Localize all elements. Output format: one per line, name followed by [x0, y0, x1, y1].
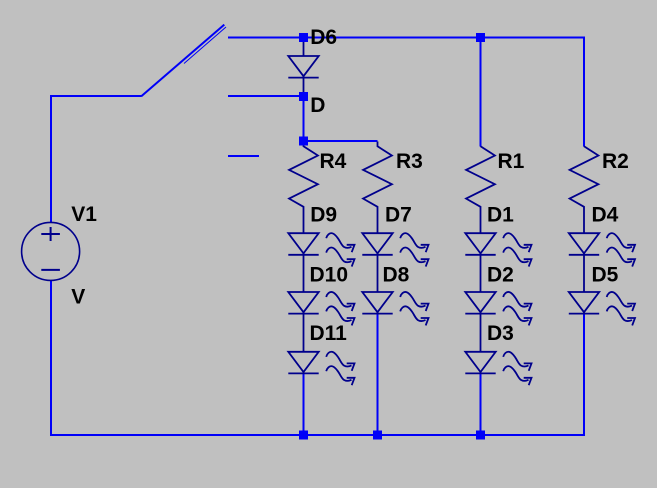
label R4 [320, 150, 347, 173]
diode D6 [288, 42, 318, 93]
switch SW1 throw 3 contact [228, 155, 259, 157]
LED D1 [465, 233, 531, 266]
resistor R1 [466, 146, 495, 233]
label D node [310, 94, 325, 117]
node R4 top [299, 137, 308, 146]
svg-text:R1: R1 [498, 150, 525, 173]
svg-text:V: V [71, 286, 85, 309]
svg-text:D7: D7 [385, 204, 412, 227]
switch SW1 arm edge [184, 27, 226, 64]
wire D7-D8 stem [377, 255, 379, 292]
label D7 [385, 204, 412, 227]
LED D9 [288, 233, 354, 266]
label R1 [498, 150, 525, 173]
wire node to R3 [304, 140, 378, 142]
label D6 [310, 26, 337, 49]
label D9 [310, 204, 337, 227]
svg-text:D5: D5 [592, 264, 619, 287]
svg-text:D2: D2 [487, 264, 514, 287]
svg-text:D11: D11 [310, 322, 348, 345]
wire D node to R4 node [303, 100, 305, 137]
svg-text:D10: D10 [310, 264, 349, 287]
svg-text:V1: V1 [71, 203, 97, 226]
svg-text:D4: D4 [592, 204, 619, 227]
svg-text:D8: D8 [383, 264, 410, 287]
node R1 top [476, 33, 485, 42]
LED D8 [362, 292, 428, 325]
wire R2 column bottom [583, 314, 585, 435]
wire D9-D10 stem [303, 255, 305, 292]
label R2 [602, 150, 629, 173]
node D [299, 92, 308, 101]
wire D11 to bottom rail [303, 373, 305, 435]
label R3 [396, 150, 423, 173]
node bottom C2 [373, 431, 382, 440]
label D4 [592, 204, 619, 227]
voltage source V1 [22, 222, 80, 280]
wire D1-D2 stem [480, 255, 482, 292]
svg-text:D6: D6 [310, 26, 337, 49]
svg-text:D1: D1 [487, 204, 514, 227]
svg-text:D: D [310, 94, 325, 117]
svg-text:D9: D9 [310, 204, 337, 227]
wire switch pole and left rail upper [51, 96, 142, 223]
label D8 [383, 264, 410, 287]
wire D2-D3 stem [480, 314, 482, 352]
LED D11 [288, 352, 354, 385]
label D10 [310, 264, 349, 287]
svg-text:R2: R2 [602, 150, 629, 173]
switch SW1 arm [141, 25, 224, 97]
svg-text:R4: R4 [320, 150, 347, 173]
wire top rail [228, 37, 584, 39]
label V1 [71, 203, 97, 226]
svg-text:R3: R3 [396, 150, 423, 173]
wire D4-D5 stem [583, 255, 585, 292]
wire D3 to bottom rail [480, 373, 482, 435]
label D5 [592, 264, 619, 287]
wire R1 top drop [480, 38, 482, 147]
resistor R2 [570, 146, 599, 233]
LED D2 [465, 292, 531, 325]
node top at D6 [299, 33, 308, 42]
label D2 [487, 264, 514, 287]
LED D3 [465, 352, 531, 385]
label V [71, 286, 85, 309]
node bottom C3 [476, 431, 485, 440]
wire bottom rail [50, 434, 585, 436]
resistor R3 [363, 142, 392, 234]
wire right drop to R2 [583, 37, 585, 147]
svg-text:D3: D3 [487, 322, 514, 345]
LED D4 [569, 233, 635, 266]
LED D5 [569, 292, 635, 325]
label D11 [310, 322, 348, 345]
LED D7 [362, 233, 428, 266]
resistor R4 [289, 141, 318, 233]
node bottom C1 [299, 431, 308, 440]
wire D8 to bottom rail [377, 314, 379, 435]
wire D10-D11 stem [303, 314, 305, 352]
wire left rail lower [50, 280, 52, 436]
switch SW1 throw 2 contact [228, 95, 300, 97]
label D1 [487, 204, 514, 227]
LED D10 [288, 292, 354, 325]
label D3 [487, 322, 514, 345]
